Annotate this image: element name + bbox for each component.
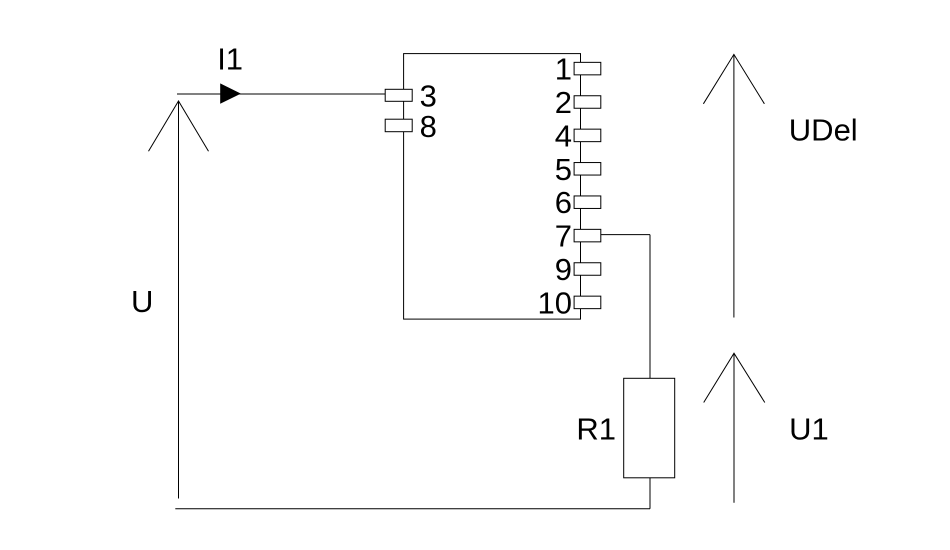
wire: top horizontal from source terminal to pin 3 bbox=[177, 93, 385, 95]
voltage arrow U head bbox=[149, 101, 209, 151]
svg-text:4: 4 bbox=[555, 118, 572, 153]
svg-text:5: 5 bbox=[555, 152, 572, 187]
svg-text:7: 7 bbox=[555, 219, 572, 254]
svg-text:R1: R1 bbox=[576, 411, 616, 446]
pin 4 box bbox=[574, 129, 601, 142]
pin 3 box bbox=[385, 89, 412, 101]
wire: vertical down to R1 top bbox=[649, 235, 651, 379]
svg-text:9: 9 bbox=[555, 252, 572, 287]
svg-text:2: 2 bbox=[555, 85, 572, 120]
current arrow I1 (filled triangle on top wire) bbox=[220, 83, 241, 103]
voltage arrow U1 shaft bbox=[733, 353, 735, 503]
wire: pin 7 horizontal to R1 branch bbox=[601, 234, 650, 236]
resistor R1 body bbox=[624, 378, 675, 478]
pin 2 box bbox=[574, 96, 601, 109]
voltage arrow UDel head bbox=[703, 54, 764, 103]
pin 6 box bbox=[574, 196, 601, 209]
svg-text:U: U bbox=[131, 284, 153, 319]
svg-text:U1: U1 bbox=[789, 412, 829, 447]
voltage arrow U1 head bbox=[704, 353, 765, 402]
svg-text:6: 6 bbox=[555, 185, 572, 220]
voltage arrow UDel shaft bbox=[733, 54, 735, 317]
subcircuit body (IC box) bbox=[404, 54, 581, 320]
svg-text:UDel: UDel bbox=[789, 113, 858, 148]
pin 10 box bbox=[574, 296, 601, 309]
svg-text:10: 10 bbox=[538, 285, 572, 320]
pin 8 box bbox=[385, 119, 412, 132]
wire: R1 bottom to bottom rail bbox=[649, 478, 651, 509]
pin 5 box bbox=[574, 163, 601, 176]
voltage arrow U shaft bbox=[178, 101, 180, 499]
svg-text:8: 8 bbox=[420, 109, 437, 144]
pin 1 box bbox=[574, 62, 601, 75]
wire: bottom horizontal rail bbox=[175, 508, 650, 510]
svg-text:I1: I1 bbox=[217, 42, 243, 77]
pin 9 box bbox=[574, 263, 601, 276]
svg-text:1: 1 bbox=[555, 52, 572, 87]
pin 7 box bbox=[574, 229, 601, 242]
